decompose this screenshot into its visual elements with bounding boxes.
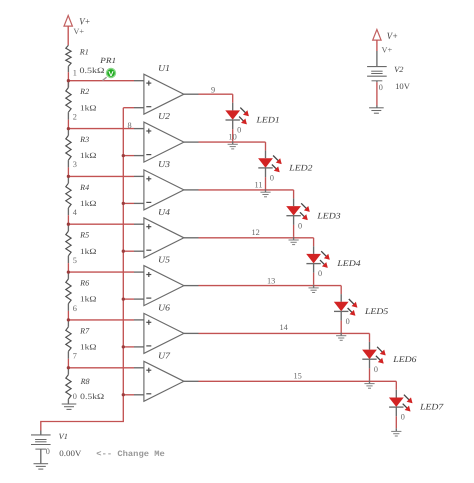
svg-text:R8: R8 (80, 377, 90, 386)
svg-text:V+: V+ (387, 32, 398, 42)
svg-text:R5: R5 (79, 231, 89, 240)
svg-text:0: 0 (298, 221, 302, 230)
svg-text:0: 0 (46, 447, 50, 456)
svg-text:3: 3 (73, 160, 77, 169)
svg-text:0.00V: 0.00V (59, 449, 81, 458)
svg-text:0: 0 (237, 126, 241, 135)
svg-text:1kΩ: 1kΩ (80, 247, 97, 256)
svg-text:LED4: LED4 (336, 258, 361, 268)
svg-text:R2: R2 (79, 87, 89, 96)
svg-text:12: 12 (252, 228, 260, 237)
svg-text:10V: 10V (395, 82, 410, 91)
svg-text:V2: V2 (394, 65, 403, 74)
svg-text:0: 0 (346, 317, 350, 326)
svg-text:LED5: LED5 (364, 306, 389, 316)
svg-text:V: V (108, 71, 114, 78)
svg-text:R6: R6 (79, 279, 89, 288)
svg-text:6: 6 (73, 304, 77, 313)
svg-text:10: 10 (229, 133, 237, 142)
svg-text:R4: R4 (79, 183, 89, 192)
svg-text:R3: R3 (79, 135, 89, 144)
svg-text:V+: V+ (79, 18, 90, 28)
svg-text:7: 7 (73, 352, 77, 361)
svg-text:LED2: LED2 (288, 163, 313, 173)
svg-text:<-- Change Me: <-- Change Me (96, 450, 165, 459)
svg-text:0: 0 (270, 174, 274, 183)
svg-text:U6: U6 (158, 302, 170, 312)
svg-text:0: 0 (318, 269, 322, 278)
svg-text:U2: U2 (158, 111, 170, 121)
svg-text:LED3: LED3 (316, 210, 340, 220)
svg-text:15: 15 (294, 371, 302, 380)
svg-text:1kΩ: 1kΩ (80, 295, 97, 304)
svg-text:LED6: LED6 (392, 354, 417, 364)
svg-text:LED7: LED7 (419, 402, 444, 412)
svg-text:U7: U7 (158, 350, 170, 360)
svg-text:1kΩ: 1kΩ (80, 103, 97, 112)
svg-text:1: 1 (73, 68, 77, 77)
svg-text:V+: V+ (382, 46, 393, 55)
svg-text:0: 0 (401, 413, 405, 422)
svg-text:U4: U4 (158, 207, 170, 217)
svg-text:0: 0 (73, 392, 77, 401)
svg-text:U1: U1 (158, 63, 170, 73)
svg-text:1kΩ: 1kΩ (80, 199, 97, 208)
svg-text:14: 14 (280, 323, 289, 332)
svg-text:8: 8 (128, 121, 132, 130)
svg-text:R1: R1 (79, 47, 89, 56)
svg-text:13: 13 (267, 277, 275, 286)
svg-text:V1: V1 (59, 432, 68, 441)
svg-text:5: 5 (73, 256, 77, 265)
svg-text:11: 11 (255, 181, 263, 190)
svg-text:LED1: LED1 (255, 115, 279, 125)
svg-text:9: 9 (211, 85, 215, 94)
svg-text:0.5kΩ: 0.5kΩ (80, 392, 104, 401)
svg-text:0: 0 (374, 365, 378, 374)
svg-text:1kΩ: 1kΩ (80, 343, 97, 352)
svg-text:2: 2 (73, 112, 77, 121)
svg-text:R7: R7 (79, 326, 90, 335)
svg-text:0: 0 (379, 83, 383, 92)
svg-text:U5: U5 (158, 255, 170, 265)
svg-text:PR1: PR1 (99, 56, 116, 65)
svg-text:0.5kΩ: 0.5kΩ (80, 66, 105, 75)
svg-text:U3: U3 (158, 159, 170, 169)
svg-text:V+: V+ (73, 27, 84, 36)
svg-text:1kΩ: 1kΩ (80, 151, 97, 160)
